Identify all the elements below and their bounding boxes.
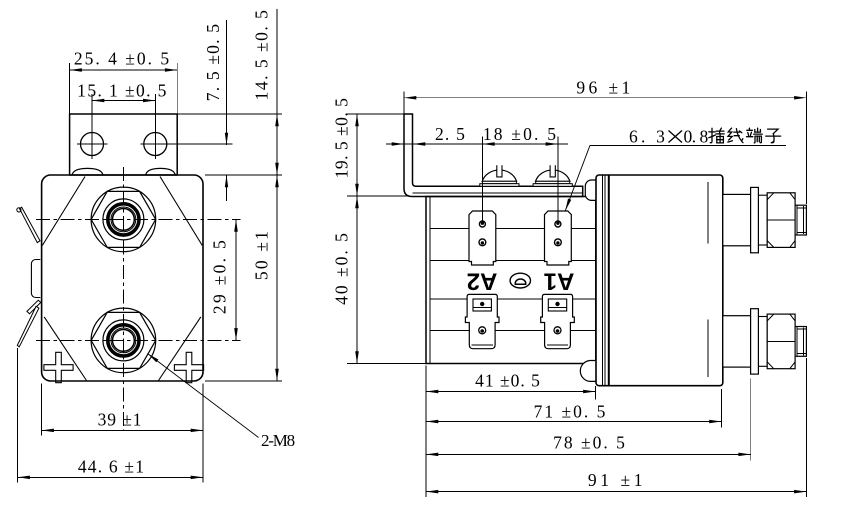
front view: bracket hole left <box>77 94 108 159</box>
side view: coil terminal screw left <box>480 165 519 186</box>
dim 44.6 +-1 overall width <box>18 348 203 483</box>
front view: screw dome bump right <box>146 168 176 175</box>
dim 39 +-1 body width <box>42 384 203 483</box>
front view: side clip stub <box>27 300 41 314</box>
front view: bracket hole right <box>140 94 232 159</box>
front view: side clip capsule <box>31 260 40 298</box>
dim 71 +-0.5 to can end <box>426 389 722 428</box>
svg-text:0. 8: 0. 8 <box>684 127 709 147</box>
dim 96 +-1 overall length <box>404 78 806 205</box>
svg-text:A1: A1 <box>544 267 575 294</box>
front view: M8 stud terminal top <box>91 187 156 252</box>
svg-text:40 ±0. 5: 40 ±0. 5 <box>332 231 352 305</box>
svg-text:6. 3: 6. 3 <box>629 127 668 147</box>
front view: draft line bottom-left <box>44 317 86 381</box>
callout text cha (insert) <box>709 128 724 143</box>
svg-text:A2: A2 <box>467 267 498 294</box>
callout 2-M8 stud thread <box>148 354 295 451</box>
svg-text:91 ±1: 91 ±1 <box>588 470 646 490</box>
front view: cross mark bottom-left <box>44 352 73 382</box>
svg-text:44. 6 ±1: 44. 6 ±1 <box>78 456 145 476</box>
front view: M8 stud terminal bottom <box>91 308 156 373</box>
dim 18 +-0.5 coil terminal spacing <box>482 124 558 223</box>
callout text xian (wire) <box>728 128 743 143</box>
svg-text:50 ±1: 50 ±1 <box>252 229 272 280</box>
dim 25.4 +-0.5 bracket width <box>70 49 178 114</box>
dim 7.5 +-0.5 hole center to body top <box>203 20 228 201</box>
dim 40 +-0.5 flange to body bottom <box>332 196 427 364</box>
front view: draft line top-left <box>42 177 85 246</box>
side view: M8 stud assembly top <box>723 187 807 252</box>
svg-text:78 ±0. 5: 78 ±0. 5 <box>553 432 627 452</box>
front view: side lever blade lower <box>17 306 39 347</box>
svg-text:18 ±0. 5: 18 ±0. 5 <box>483 124 558 144</box>
side view: coil terminal screw right <box>533 165 572 186</box>
dim 15.1 +-0.5 hole spacing <box>77 81 168 103</box>
front view: contactor body outline <box>42 175 203 381</box>
dim 78 +-0.5 to washer face <box>426 379 751 461</box>
dim 29 +-0.5 stud spacing <box>210 219 238 340</box>
svg-text:41 ±0. 5: 41 ±0. 5 <box>475 371 541 391</box>
front view: vertical centerline <box>122 167 124 431</box>
side view: contact can cylinder <box>596 175 723 386</box>
svg-text:2. 5: 2. 5 <box>435 124 466 144</box>
dim 50 +-1 body height <box>205 175 282 381</box>
front view: cross mark bottom-right <box>174 352 203 382</box>
front view: draft line top-right <box>160 177 202 246</box>
dim 2.5 bracket thickness <box>386 124 568 146</box>
svg-text:7. 5 ±0. 5: 7. 5 ±0. 5 <box>203 23 223 101</box>
dim 91 +-1 to stud end <box>426 358 806 497</box>
svg-text:25. 4 ±0. 5: 25. 4 ±0. 5 <box>74 49 171 69</box>
svg-text:14. 5 ±0. 5: 14. 5 ±0. 5 <box>252 9 272 101</box>
svg-text:71 ±0. 5: 71 ±0. 5 <box>534 402 608 422</box>
side view: can crimp ear bottom-left <box>580 361 596 382</box>
dim 19.5 +-0.5 bracket top to flange bottom <box>332 98 413 196</box>
svg-text:29 ±0. 5: 29 ±0. 5 <box>210 238 230 314</box>
dim 14.5 +-0.5 bracket top to body top <box>70 9 282 175</box>
front view: side lever blade upper <box>17 207 40 242</box>
side view: can crimp bump top-left <box>585 180 596 200</box>
side view: L mounting bracket <box>404 114 583 197</box>
front view: screw dome bump left <box>72 168 103 175</box>
front view: horizontal centerline top stud <box>36 218 241 220</box>
side view: M8 stud assembly bottom <box>723 309 807 374</box>
dim 41 +-0.5 housing length <box>426 366 595 498</box>
callout text duan (terminal) <box>747 128 763 143</box>
front view: draft line bottom-right <box>159 317 201 381</box>
side view: quick-connect tab upper right <box>545 211 572 265</box>
side view: quick-connect tab lower right <box>541 294 575 348</box>
svg-text:96 ±1: 96 ±1 <box>576 78 633 98</box>
callout 6.3x0.8 quick-connect terminal <box>565 127 786 211</box>
svg-text:19. 5 ±0. 5: 19. 5 ±0. 5 <box>332 98 352 179</box>
svg-text:39 ±1: 39 ±1 <box>98 410 143 430</box>
side view: coil housing body <box>426 197 596 364</box>
side view: quick-connect tab upper left <box>469 211 496 265</box>
svg-text:15. 1 ±0. 5: 15. 1 ±0. 5 <box>77 81 168 101</box>
callout text zi (terminal suffix) <box>766 129 781 143</box>
front view: mounting bracket plate <box>70 114 178 175</box>
brand logo oval <box>510 273 530 288</box>
svg-text:2-M8: 2-M8 <box>261 431 295 450</box>
front view: horizontal centerline bottom stud <box>36 339 241 341</box>
side view: quick-connect tab lower left <box>465 294 499 348</box>
